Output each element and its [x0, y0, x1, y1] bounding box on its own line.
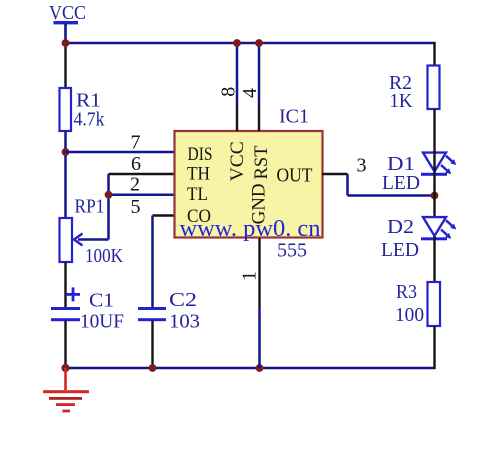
junction TH/TL [105, 191, 113, 199]
potentiometer RP1 [60, 218, 73, 262]
resistor R3 [428, 282, 441, 326]
LED D1 [421, 153, 456, 176]
svg-text:TH: TH [187, 164, 210, 185]
wire wiper [78, 238, 109, 241]
svg-text:C2: C2 [169, 289, 197, 311]
wire R3 to bottom rail [433, 326, 435, 369]
svg-text:RP1: RP1 [75, 196, 105, 218]
svg-text:100K: 100K [85, 245, 123, 267]
svg-text:IC1: IC1 [279, 106, 309, 128]
capacitor C1 [51, 307, 80, 310]
junction pin 4 [255, 39, 263, 47]
svg-text:LED: LED [381, 239, 419, 261]
svg-text:TL: TL [187, 184, 208, 205]
svg-text:RST: RST [251, 145, 272, 179]
svg-text:6: 6 [131, 153, 141, 175]
wire top rail [65, 42, 436, 45]
resistor R1 [60, 88, 72, 131]
wire pin 4 [258, 43, 261, 103]
svg-text:8: 8 [218, 87, 240, 97]
wire pin 6 TH [109, 173, 176, 175]
wire OUT down [346, 174, 349, 196]
junction ground [61, 364, 69, 372]
wire bottom rail [65, 367, 436, 370]
C1 plus sign [66, 293, 80, 296]
IC IC1 555 timer body [175, 131, 323, 238]
ground [43, 368, 89, 412]
wire R2 drop [433, 42, 435, 66]
wire TH-TL vertical [107, 174, 110, 240]
power symbol VCC bar [54, 21, 79, 24]
wiper arrowhead [74, 234, 83, 246]
svg-text:5: 5 [131, 196, 141, 218]
wire pin 1 GND [258, 238, 260, 308]
svg-text:www. pw0. cn: www. pw0. cn [180, 216, 321, 242]
svg-text:OUT: OUT [277, 165, 313, 187]
junction C2 bottom [149, 364, 157, 372]
wire D1 through [433, 151, 435, 196]
LED D2 [421, 217, 456, 240]
svg-text:100: 100 [395, 304, 424, 326]
wire pin 5 CO [153, 214, 176, 216]
svg-text:C1: C1 [89, 290, 114, 312]
wire pin 7 DIS [65, 151, 176, 154]
wire VCC stub [64, 24, 67, 43]
wire pin 3 OUT stub [322, 173, 348, 175]
junction at VCC [62, 39, 70, 47]
svg-text:R3: R3 [396, 281, 417, 303]
junction pin 8 [233, 39, 241, 47]
capacitor C2 [138, 307, 166, 310]
svg-text:VCC: VCC [227, 141, 248, 181]
wire pin 2 TL [109, 193, 176, 196]
svg-text:DIS: DIS [188, 144, 213, 165]
svg-text:10UF: 10UF [80, 311, 124, 333]
junction pin1 bottom [256, 364, 264, 372]
wire D1 to D2 [433, 196, 435, 218]
svg-text:3: 3 [357, 155, 367, 177]
wire pin 8 [236, 43, 239, 103]
svg-text:103: 103 [169, 311, 200, 333]
wire D2 to R3 [433, 236, 435, 283]
junction at pin7 [62, 148, 70, 156]
wire left trunk upper [64, 43, 66, 90]
resistor R2 [428, 66, 440, 110]
wire R1 bottom to junction [64, 131, 67, 218]
svg-text:555: 555 [277, 240, 307, 262]
svg-text:1K: 1K [390, 90, 414, 112]
svg-text:4: 4 [239, 88, 261, 98]
wire C1 bottom [64, 321, 66, 369]
junction OUT/LEDs [431, 192, 439, 200]
svg-text:VCC: VCC [49, 2, 86, 24]
wire CO to C2 vertical [151, 216, 154, 308]
wire RP1 to C1 [64, 262, 66, 308]
wire R2 to D1 [433, 109, 435, 152]
svg-text:4.7k: 4.7k [74, 109, 105, 131]
svg-text:LED: LED [382, 172, 420, 194]
wire OUT to LEDs [348, 194, 435, 197]
svg-text:2: 2 [130, 174, 140, 196]
wire C2 bottom [151, 321, 153, 368]
svg-text:D2: D2 [387, 216, 414, 238]
svg-text:1: 1 [239, 271, 261, 281]
svg-text:7: 7 [131, 132, 141, 154]
